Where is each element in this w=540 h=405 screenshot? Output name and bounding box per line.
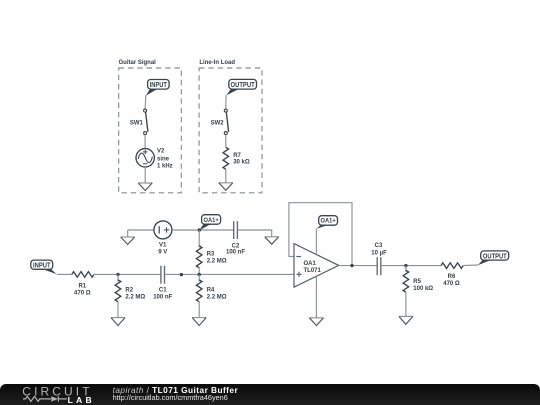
svg-text:2.2 MΩ: 2.2 MΩ xyxy=(207,258,227,264)
svg-text:SW1: SW1 xyxy=(130,120,144,126)
node junction (feedback/output) xyxy=(350,264,353,267)
svg-text:100 nF: 100 nF xyxy=(153,295,172,301)
flag OA1+ (op-amp supply) xyxy=(317,216,338,229)
svg-text:sine: sine xyxy=(157,156,170,162)
svg-text:R5: R5 xyxy=(413,279,421,285)
svg-text:Line-In Load: Line-In Load xyxy=(199,60,235,66)
wire opamp V- to ground xyxy=(315,276,317,317)
footer title xyxy=(113,385,533,394)
svg-text:R6: R6 xyxy=(448,274,456,280)
svg-text:470 Ω: 470 Ω xyxy=(74,291,91,297)
wire ground to V1 xyxy=(128,229,154,231)
resistor R3 xyxy=(196,230,226,275)
resistor R6 xyxy=(441,263,463,287)
wire opamp output to C3 xyxy=(339,265,378,267)
capacitor C1 xyxy=(153,266,172,301)
wire opamp V+ xyxy=(315,229,317,255)
battery V1 9V xyxy=(154,221,172,256)
svg-text:TL071: TL071 xyxy=(304,268,322,274)
wire SW2 to R7 xyxy=(225,135,227,148)
ground (R4) xyxy=(192,317,206,319)
svg-text:R2: R2 xyxy=(125,287,133,293)
svg-text:C3: C3 xyxy=(375,243,383,249)
wire R6 to output flag xyxy=(462,264,478,267)
svg-text:R7: R7 xyxy=(233,153,241,159)
wire flag to SW2 xyxy=(225,95,227,109)
node junction (V1/R3/C2) xyxy=(198,228,201,231)
resistor R2 xyxy=(115,274,145,317)
ground (R5) xyxy=(399,315,413,317)
wire SW1 to V2 xyxy=(144,135,146,149)
svg-text:2.2 MΩ: 2.2 MΩ xyxy=(125,294,145,300)
svg-text:V2: V2 xyxy=(157,148,165,154)
flag OUTPUT (main) xyxy=(478,251,509,265)
Line-In Load enclosure box xyxy=(199,60,262,193)
wire V1 to node OA1+ xyxy=(172,229,234,231)
node junction (mid wire) xyxy=(180,273,183,276)
wire C3 to R6 xyxy=(381,265,441,267)
svg-text:Guitar Signal: Guitar Signal xyxy=(119,60,157,66)
node junction (R3/R4) xyxy=(198,273,201,276)
switch SW2 xyxy=(211,109,229,135)
ground (line-in box) xyxy=(219,182,233,184)
op-amp OA1 TL071 xyxy=(294,244,339,288)
ground (R2) xyxy=(111,317,125,319)
svg-text:R1: R1 xyxy=(78,284,86,290)
wire C1 to opamp xyxy=(164,273,294,275)
feedback wire loop xyxy=(289,203,352,266)
svg-text:9 V: 9 V xyxy=(158,250,167,256)
resistor R1 xyxy=(72,272,94,297)
wire flag to SW1 xyxy=(144,95,147,109)
wire R1 to C1 xyxy=(93,273,161,275)
flag OUTPUT (line-in box) xyxy=(226,79,256,95)
ground (C2) xyxy=(265,236,279,238)
capacitor C3 xyxy=(371,243,387,275)
svg-text:470 Ω: 470 Ω xyxy=(443,281,460,287)
svg-text:INPUT: INPUT xyxy=(33,261,51,270)
svg-text:10 µF: 10 µF xyxy=(371,251,387,257)
CircuitLab logo xyxy=(0,383,110,405)
resistor R5 xyxy=(403,266,433,317)
switch SW1 xyxy=(130,109,148,135)
source V2 sine xyxy=(136,148,173,169)
resistor R7 xyxy=(223,147,250,169)
wire C2 to ground xyxy=(237,230,271,237)
svg-text:OA1+: OA1+ xyxy=(321,218,336,225)
svg-text:OUTPUT: OUTPUT xyxy=(231,80,256,89)
capacitor C2 xyxy=(226,221,245,256)
ground (battery V1 negative) xyxy=(121,230,135,244)
flag OA1+ (supply node) xyxy=(199,215,220,231)
svg-text:INPUT: INPUT xyxy=(150,80,168,89)
svg-text:C2: C2 xyxy=(232,244,240,250)
svg-text:OA1+: OA1+ xyxy=(204,217,219,224)
svg-text:R4: R4 xyxy=(207,287,215,293)
svg-text:100 nF: 100 nF xyxy=(226,250,245,256)
wire R7 to ground xyxy=(225,169,227,183)
svg-text:30 kΩ: 30 kΩ xyxy=(233,160,250,166)
wire V2 to ground xyxy=(144,167,146,183)
svg-text:V1: V1 xyxy=(159,243,167,249)
svg-text:OA1: OA1 xyxy=(304,261,317,267)
svg-text:SW2: SW2 xyxy=(211,120,225,126)
flag INPUT (guitar box) xyxy=(146,80,169,96)
ground (guitar box) xyxy=(138,182,152,184)
svg-text:2.2 MΩ: 2.2 MΩ xyxy=(207,294,227,300)
svg-text:100 kΩ: 100 kΩ xyxy=(413,286,433,292)
wire input flag to R1 xyxy=(57,273,72,275)
ground (op-amp) xyxy=(309,317,323,319)
node junction (R1/R2) xyxy=(116,273,119,276)
svg-text:OUTPUT: OUTPUT xyxy=(483,251,507,260)
resistor R4 xyxy=(196,274,226,317)
footer bar xyxy=(0,384,540,405)
svg-text:C1: C1 xyxy=(159,288,167,294)
flag INPUT (main) xyxy=(31,260,57,274)
svg-text:1 kHz: 1 kHz xyxy=(157,164,173,170)
Guitar Signal enclosure box xyxy=(119,60,182,193)
svg-text:R3: R3 xyxy=(207,252,215,258)
svg-text:LAB: LAB xyxy=(68,395,95,405)
node junction (C3/R5) xyxy=(404,264,407,267)
footer url xyxy=(113,393,533,402)
